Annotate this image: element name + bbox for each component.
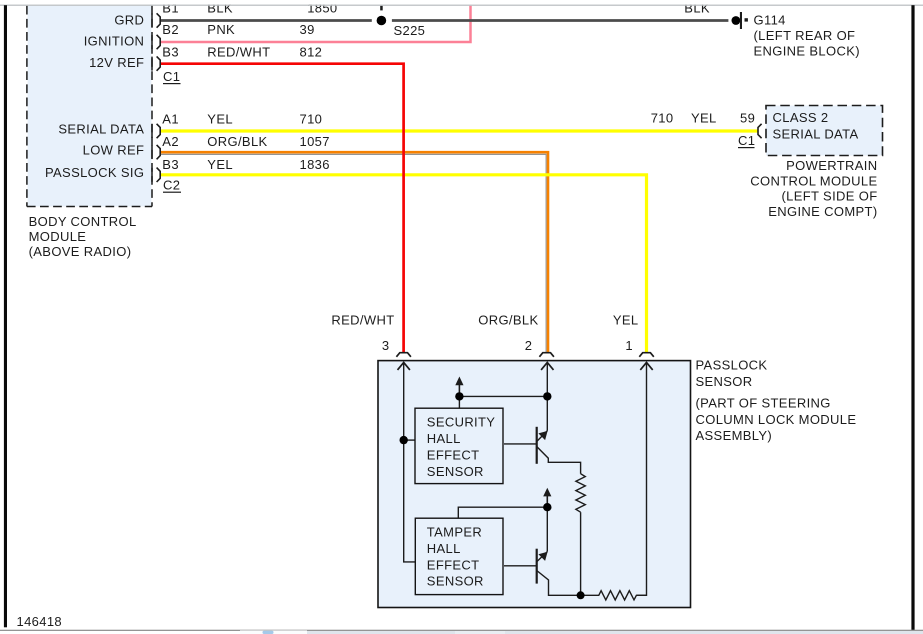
svg-text:HALL: HALL <box>427 541 461 556</box>
svg-text:2: 2 <box>525 338 533 353</box>
node dot pin3/security <box>400 436 408 444</box>
sensor interior <box>404 362 647 595</box>
tamper collector line <box>546 507 548 551</box>
bottom border line <box>0 630 923 631</box>
svg-text:812: 812 <box>300 45 323 60</box>
pin 3 stub to security sensor <box>404 439 415 441</box>
PCM connector arc C1 <box>758 124 762 138</box>
svg-text:IGNITION: IGNITION <box>84 34 145 49</box>
pin entry chevron arrows <box>398 362 653 370</box>
svg-text:PNK: PNK <box>207 22 235 37</box>
svg-text:RED/WHT: RED/WHT <box>207 45 270 60</box>
svg-text:1: 1 <box>625 338 633 353</box>
pin name labels BCM <box>45 12 144 179</box>
wire LOW REF ORG/BLK 1057 <box>160 154 546 352</box>
svg-text:1836: 1836 <box>300 157 330 172</box>
svg-text:59: 59 <box>740 111 755 126</box>
svg-text:A1: A1 <box>162 111 179 126</box>
svg-text:A2: A2 <box>162 134 179 149</box>
svg-text:EFFECT: EFFECT <box>427 447 480 462</box>
svg-text:SERIAL DATA: SERIAL DATA <box>773 127 859 142</box>
powertrain control module label <box>750 158 877 219</box>
svg-text:SERIAL DATA: SERIAL DATA <box>58 121 144 136</box>
circuit number labels <box>300 1 338 173</box>
security sensor top line <box>458 396 460 408</box>
top border line <box>0 5 923 6</box>
tamper hall effect sensor box <box>415 518 503 594</box>
wire GRD BLK 1850 left segment <box>160 19 371 22</box>
svg-text:COLUMN LOCK MODULE: COLUMN LOCK MODULE <box>696 412 857 427</box>
svg-text:GRD: GRD <box>114 12 144 27</box>
svg-text:B2: B2 <box>162 22 179 37</box>
node dot security branch <box>455 392 463 400</box>
class 2 serial data text <box>773 110 859 142</box>
body control module U1 box <box>27 6 152 207</box>
connector C1 label <box>163 69 181 84</box>
svg-text:PASSLOCK: PASSLOCK <box>696 357 768 372</box>
transistor Q2 emitter arrow <box>538 552 547 561</box>
wire IGNITION PNK 39 <box>160 6 470 42</box>
svg-text:C1: C1 <box>163 69 180 84</box>
svg-text:3: 3 <box>382 338 390 353</box>
right frame bar <box>911 5 914 631</box>
wire color labels above sensor <box>331 313 638 328</box>
svg-text:EFFECT: EFFECT <box>427 557 480 572</box>
svg-text:B3: B3 <box>162 157 179 172</box>
svg-text:B3: B3 <box>162 45 179 60</box>
svg-text:C2: C2 <box>163 178 180 193</box>
BCM border pin bars <box>151 14 153 182</box>
svg-text:1057: 1057 <box>300 134 330 149</box>
node dot pin2 branch <box>543 392 551 400</box>
splice S225 branch stub <box>380 6 383 11</box>
resistor R2 (horizontal) <box>581 591 647 600</box>
svg-text:(LEFT REAR OF: (LEFT REAR OF <box>754 28 856 43</box>
svg-text:HALL: HALL <box>427 431 461 446</box>
sensor top connector arcs pins 3 2 1 <box>396 353 653 357</box>
svg-text:LOW REF: LOW REF <box>83 143 145 158</box>
serial data wire labels 710 YEL 59 <box>651 111 755 126</box>
wire SERIAL DATA YEL 710 <box>160 129 758 132</box>
svg-text:SENSOR: SENSOR <box>427 574 484 589</box>
security hall effect sensor box <box>415 408 503 483</box>
svg-text:MODULE: MODULE <box>29 229 87 244</box>
pin id labels <box>162 1 179 173</box>
wire 12V REF RED/WHT 812 <box>160 64 403 353</box>
svg-text:ENGINE COMPT): ENGINE COMPT) <box>768 204 877 219</box>
pin 1 interior line <box>637 362 647 595</box>
BCM connector pin arcs <box>157 13 161 182</box>
wire color labels <box>207 1 270 173</box>
svg-text:CLASS 2: CLASS 2 <box>773 110 829 125</box>
ground label G114 <box>754 12 860 58</box>
svg-text:710: 710 <box>300 111 323 126</box>
tamper branch arrow (filled) <box>543 488 551 508</box>
svg-text:146418: 146418 <box>17 614 62 629</box>
node dot bottom <box>577 591 585 599</box>
svg-text:SENSOR: SENSOR <box>696 374 753 389</box>
passlock sensor box <box>378 361 691 608</box>
svg-text:S225: S225 <box>394 23 426 38</box>
svg-text:YEL: YEL <box>613 313 639 328</box>
svg-text:PASSLOCK SIG: PASSLOCK SIG <box>45 165 144 180</box>
svg-text:(LEFT SIDE OF: (LEFT SIDE OF <box>781 189 877 204</box>
svg-text:G114: G114 <box>754 12 786 27</box>
class 2 serial data / PCM box <box>766 106 883 156</box>
body control module label <box>29 214 137 259</box>
tamper node wire <box>458 507 547 518</box>
svg-text:BODY CONTROL: BODY CONTROL <box>29 214 137 229</box>
svg-text:RED/WHT: RED/WHT <box>331 313 394 328</box>
svg-text:SECURITY: SECURITY <box>427 415 496 430</box>
svg-text:ORG/BLK: ORG/BLK <box>478 313 538 328</box>
svg-text:710: 710 <box>651 111 674 126</box>
svg-text:POWERTRAIN: POWERTRAIN <box>786 158 877 173</box>
wire BLK right segment to G114 <box>392 19 729 22</box>
svg-text:YEL: YEL <box>207 111 233 126</box>
connector C1 label right <box>738 133 755 148</box>
resistor R1 (vertical) <box>576 474 585 513</box>
svg-text:39: 39 <box>300 22 315 37</box>
security branch arrow (filled) <box>455 377 463 397</box>
connector C2 label <box>163 178 181 193</box>
pin 3 interior line <box>404 362 416 562</box>
wire R1 to bottom node <box>580 512 582 595</box>
node wire security to pin2 <box>459 395 547 397</box>
node dot tamper branch <box>543 503 551 511</box>
svg-text:YEL: YEL <box>207 157 233 172</box>
left frame bar <box>4 5 7 627</box>
transistor Q1 emitter arrow <box>538 431 547 440</box>
svg-text:C1: C1 <box>738 133 755 148</box>
svg-text:ASSEMBLY): ASSEMBLY) <box>696 428 773 443</box>
svg-text:ORG/BLK: ORG/BLK <box>207 134 267 149</box>
passlock sensor label <box>696 357 857 443</box>
sensor pin numbers 3 2 1 <box>382 338 633 353</box>
top clip <box>0 0 923 5</box>
svg-text:(ABOVE RADIO): (ABOVE RADIO) <box>29 244 132 259</box>
svg-text:SENSOR: SENSOR <box>427 464 484 479</box>
svg-text:TAMPER: TAMPER <box>427 525 482 540</box>
transistor Q2 <box>504 549 581 596</box>
splice S225 junction <box>377 16 387 26</box>
bottom ui strip <box>0 630 923 634</box>
svg-text:CONTROL MODULE: CONTROL MODULE <box>750 173 877 188</box>
svg-text:(PART OF STEERING: (PART OF STEERING <box>696 395 831 410</box>
svg-text:ENGINE BLOCK): ENGINE BLOCK) <box>754 44 860 59</box>
svg-text:YEL: YEL <box>691 111 717 126</box>
ground G114 symbol <box>732 12 748 29</box>
transistor Q1 <box>504 427 581 474</box>
pin 2 interior line <box>546 362 548 431</box>
wire PASSLOCK SIG YEL 1836 <box>160 175 646 353</box>
svg-text:12V REF: 12V REF <box>89 55 144 70</box>
